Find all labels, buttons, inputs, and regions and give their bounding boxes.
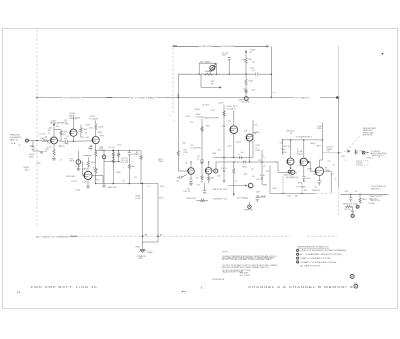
arrow pi bottom (233, 193, 235, 196)
junction osc rail left (199, 74, 200, 75)
neon lamp DS1 (210, 65, 215, 70)
svg-text:+60: +60 (241, 152, 245, 154)
svg-text:GRIDS: GRIDS (195, 109, 201, 111)
svg-text:6.3 VAC HTRS: 6.3 VAC HTRS (200, 45, 214, 48)
wire: V5A to bus (233, 133, 235, 157)
pilot lamp on B+ bus (244, 97, 248, 101)
wire: lamp loop top (198, 63, 200, 74)
wire: C2 to node A (68, 140, 74, 142)
svg-text:10M: 10M (205, 71, 209, 73)
svg-text:C: C (174, 121, 176, 123)
svg-text:C14: C14 (190, 121, 194, 123)
svg-text:R29: R29 (245, 198, 249, 200)
svg-text:(TREM OSC): (TREM OSC) (186, 198, 196, 200)
svg-text:2: 2 (167, 98, 169, 100)
svg-text:GRID: GRID (47, 142, 52, 144)
svg-text:1W: 1W (251, 169, 253, 171)
svg-text:C19: C19 (254, 125, 258, 127)
wire: pi bus lower (216, 161, 278, 163)
ground: chain1 ground (103, 184, 105, 185)
svg-text:C40: C40 (345, 191, 349, 193)
svg-text:3: 3 (297, 258, 298, 260)
wire: pot feed (77, 151, 79, 160)
wire: V6 grid from pi (275, 161, 278, 163)
svg-text:12AU7: 12AU7 (254, 131, 261, 134)
svg-text:7: 7 (357, 207, 359, 209)
svg-text:GND: GND (138, 258, 143, 260)
svg-text:R1: R1 (19, 145, 22, 147)
junction osc rail right (229, 74, 230, 75)
wire: bottom right rail (340, 193, 388, 195)
svg-text:PHASE INVERTER: PHASE INVERTER (204, 116, 219, 119)
svg-text:PRI: PRI (328, 161, 331, 163)
svg-text:SW1: SW1 (37, 163, 42, 165)
svg-text:TO: TO (148, 186, 151, 188)
resistor R17 (245, 78, 247, 86)
wire: R2 down to node (60, 136, 62, 141)
wire: V1 plate tap (54, 129, 61, 131)
resistor R28 (199, 199, 205, 201)
resistor R11 right chain (140, 151, 142, 155)
junction on B+ bus at divider (36, 97, 38, 99)
wire: pi vertical 3 (252, 120, 254, 158)
resistor R7 cathode (95, 151, 97, 157)
junction V7 plate node (308, 161, 310, 163)
legend item 4 (297, 261, 299, 263)
svg-text:(C12): (C12) (76, 166, 81, 168)
svg-text:BUS: BUS (161, 186, 165, 188)
svg-text:R36: R36 (288, 196, 292, 198)
svg-text:1600V: 1600V (362, 199, 368, 201)
svg-text:1M A: 1M A (69, 160, 74, 163)
svg-text:SEE NOTE 1: SEE NOTE 1 (371, 189, 382, 191)
svg-text:56K: 56K (248, 59, 252, 61)
node: registration dot (382, 53, 384, 55)
svg-text:TO PWR SW: TO PWR SW (64, 97, 80, 99)
capacitor C15 stub (179, 176, 181, 179)
svg-text:4: 4 (345, 160, 347, 162)
svg-text:117VAC: 117VAC (369, 202, 376, 205)
svg-text:220K: 220K (212, 153, 217, 155)
resistor R22 (207, 176, 209, 182)
wire: V7 plate riser (303, 140, 305, 158)
tube V2 triode (70, 129, 77, 136)
lamp ring right of V5D (214, 169, 218, 173)
svg-text:C28: C28 (280, 143, 284, 145)
wire: V3 cathode (95, 144, 97, 151)
wire: pot feed trem (248, 202, 250, 205)
svg-text:TO RECT: TO RECT (295, 97, 311, 99)
svg-text:10%: 10% (252, 90, 256, 92)
svg-text:NE-2 LAMP: NE-2 LAMP (200, 60, 211, 63)
junction V3 cathode node (95, 150, 96, 151)
svg-text:.005: .005 (89, 128, 94, 130)
wire: drop to chassis ground (142, 242, 144, 249)
wire: vertical from heater line to B+ bus (270, 46, 272, 97)
capacitor C5 (128, 151, 130, 153)
svg-text:TO B+: TO B+ (260, 175, 267, 177)
wire: V4 cathode (87, 180, 89, 186)
svg-text:.005: .005 (85, 137, 90, 139)
junction pi upper 1 (223, 157, 224, 158)
svg-text:12AX7: 12AX7 (82, 167, 89, 170)
wire: rail to tubes link (323, 152, 339, 154)
svg-text:(5%): (5%) (241, 60, 245, 62)
svg-text:GND: GND (136, 247, 141, 249)
svg-text:270K: 270K (184, 152, 189, 154)
svg-text:560K: 560K (242, 167, 247, 169)
resistor R16 (245, 57, 247, 65)
svg-text:+1.5: +1.5 (59, 159, 63, 161)
svg-text:CHAS: CHAS (147, 251, 154, 254)
svg-text:5: 5 (352, 216, 354, 218)
svg-text:PIN 1: PIN 1 (100, 135, 105, 137)
ground: V1 cathode ground (53, 156, 55, 158)
wire: V4 output to ladder (92, 174, 103, 176)
svg-text:47K: 47K (244, 131, 248, 133)
wire: V3 plate supply (95, 131, 97, 137)
svg-text:SEC: SEC (304, 190, 308, 192)
junction osc vertical at B+ bus (177, 97, 179, 99)
svg-text:10M: 10M (256, 191, 260, 193)
svg-text:3: 3 (123, 168, 125, 170)
wire: V5D plate up (208, 162, 210, 168)
svg-text:SEE NOTE 3 R27: SEE NOTE 3 R27 (213, 189, 229, 191)
capacitor C12 (302, 176, 305, 180)
svg-text:GND CONNECTION: GND CONNECTION (300, 258, 331, 260)
svg-text:1M: 1M (45, 136, 48, 138)
wire: driver vertical 1 (201, 119, 203, 160)
svg-text:OSC SYNC: OSC SYNC (241, 102, 250, 104)
wire: V8 plate drop (330, 171, 332, 193)
svg-text:PIN 6: PIN 6 (95, 179, 100, 181)
svg-text:50MF 6V: 50MF 6V (312, 190, 321, 192)
wire: V5D cathode (208, 174, 210, 176)
tube V5B triode (246, 134, 253, 141)
svg-text:SPKR: SPKR (298, 183, 303, 185)
ground: input jack ground (40, 152, 44, 154)
wire: heater supply line top (173, 45, 200, 47)
wire: pi bus upper (213, 157, 253, 159)
wire: V3 leg to bus (95, 174, 97, 184)
wire: ground bus tie bar (143, 241, 159, 243)
svg-text:4: 4 (297, 262, 298, 264)
wire: dashed vertical osc (172, 48, 174, 116)
wire: V3 cathode leg (95, 157, 97, 168)
svg-text:C11: C11 (134, 177, 138, 179)
wire: R16 to rail (245, 65, 247, 75)
svg-text:C2: C2 (66, 136, 69, 138)
wire: ladder bottom rail (96, 183, 158, 185)
wire: R26 to ground (352, 207, 354, 211)
wire: chain3 lower (128, 169, 130, 183)
resistor R8b (112, 158, 114, 163)
svg-text:B+ TO PWR TRANS: B+ TO PWR TRANS (131, 96, 156, 99)
reference circle 7 (356, 205, 359, 208)
svg-text:FWD AMP BATT. LINE JA: FWD AMP BATT. LINE JA (31, 285, 98, 289)
resistor R2 plate load (60, 130, 62, 136)
junction bottom rail 1 (282, 193, 283, 194)
svg-text:14: 14 (354, 283, 358, 285)
svg-text:C31: C31 (197, 184, 201, 186)
capacitor C9 series (244, 160, 246, 163)
svg-text:25/25: 25/25 (305, 178, 311, 180)
svg-text:V3 12AX7: V3 12AX7 (89, 118, 99, 121)
legend item 3 (297, 257, 299, 259)
svg-text:100K: 100K (98, 126, 104, 128)
svg-text:1: 1 (297, 250, 298, 252)
wire: V4 plate (87, 167, 89, 171)
svg-text:1A: 1A (185, 161, 187, 164)
svg-text:PIN 9: PIN 9 (316, 145, 321, 147)
svg-text:ALL GNDS TO CHASSIS: ALL GNDS TO CHASSIS (36, 235, 70, 238)
svg-text:40MF: 40MF (263, 185, 268, 187)
wire: osc main vertical (177, 74, 179, 150)
resistor R25 (359, 194, 361, 197)
svg-text:AT TUBE SOCKETS: AT TUBE SOCKETS (300, 265, 321, 268)
svg-text:220K: 220K (83, 129, 88, 131)
svg-text:16: 16 (333, 164, 335, 166)
capacitor C16 (256, 195, 258, 197)
junction of B+ bus and right rail (338, 97, 340, 99)
svg-text:+415: +415 (297, 165, 302, 167)
tube V1 triode (51, 137, 58, 144)
svg-text:500K: 500K (99, 149, 104, 151)
wire: tremolo connector lead (228, 185, 245, 187)
svg-text:56K: 56K (131, 166, 135, 168)
svg-text:.01: .01 (252, 70, 256, 72)
junction pi lower 1 (249, 161, 250, 162)
svg-text:R13: R13 (118, 144, 122, 146)
svg-text:GND: GND (29, 157, 34, 159)
junction blob B+ bus right end (336, 96, 339, 99)
resistor R10 (128, 155, 130, 164)
svg-text:1W: 1W (63, 134, 66, 136)
wire: ladder mid tap (104, 161, 120, 163)
tube V3 triode (92, 137, 99, 144)
svg-text:250K: 250K (158, 161, 163, 163)
wire: V5C plate up (190, 162, 192, 168)
potentiometer speed (248, 205, 251, 208)
wire: R1 to V1 grid (47, 140, 50, 142)
resistor R4 (80, 127, 82, 134)
wire: output bottom rail (270, 192, 316, 194)
svg-text:V5 12AU7: V5 12AU7 (226, 107, 236, 110)
resistor R16b on osc vertical (177, 150, 179, 156)
wire: V5D out (212, 170, 214, 172)
resistor R23b (201, 175, 203, 181)
svg-text:(C30): (C30) (75, 190, 80, 192)
svg-text:2W: 2W (290, 133, 292, 135)
ground: main chassis ground (140, 249, 145, 251)
wire: pot wiper to V4 grid (82, 162, 84, 175)
svg-text:(R8): (R8) (98, 132, 103, 134)
svg-text:47K: 47K (81, 137, 85, 139)
wire: chain1 lower (103, 159, 105, 184)
wire: ladder top rail (96, 150, 141, 152)
svg-text:C15: C15 (176, 180, 180, 182)
svg-text:33K: 33K (30, 146, 34, 148)
capacitor C7 osc right (255, 73, 257, 76)
junction osc rail mid (216, 74, 217, 75)
svg-text:220K: 220K (255, 150, 260, 152)
wire: R20 to arrow (233, 175, 235, 194)
tube V4 triode (84, 171, 92, 179)
resistor R18b (201, 126, 203, 132)
svg-text:82K 1%: 82K 1% (221, 168, 227, 170)
svg-text:LINE VOLTAGES(S) 117VAC NOMINA: LINE VOLTAGES(S) 117VAC NOMINAL (300, 249, 347, 252)
resistor R1 grid stopper (41, 139, 49, 141)
svg-text:8: 8 (335, 178, 337, 180)
wire: R17 to B+ bus (245, 86, 247, 89)
svg-text:B+: B+ (250, 52, 253, 54)
resistor R6 plate (95, 123, 97, 130)
jack J1 (26, 139, 29, 142)
wire: V5B to bus (249, 141, 251, 162)
svg-text:BEFORE OPERATING 8 OHM NOMINA: BEFORE OPERATING 8 OHM NOMINAL SEE PG 2 (222, 266, 270, 269)
svg-text:W: W (123, 180, 125, 182)
svg-text:.01: .01 (355, 191, 358, 193)
ground: interlock ground (351, 211, 355, 213)
wire: ground return bus 2 (157, 184, 159, 243)
lamp DS2 tremolo (248, 183, 253, 188)
wire: screen rail left drop (282, 140, 284, 155)
wire: chain1 lead (103, 151, 105, 156)
svg-text:C1 .001: C1 .001 (39, 134, 47, 136)
svg-text:+265V: +265V (218, 103, 225, 105)
svg-text:TO GRIDS: TO GRIDS (195, 116, 204, 118)
wire: V6 plate riser (290, 140, 292, 158)
svg-text:R31 1K: R31 1K (283, 146, 291, 148)
tube V8 power (315, 167, 324, 176)
tube V5C triode (188, 168, 195, 175)
svg-text:LOCK: LOCK (357, 164, 362, 166)
interlock dashed box (357, 161, 369, 166)
svg-text:OUT TRANS: OUT TRANS (296, 186, 306, 189)
junction br 2 (359, 194, 360, 195)
resistor R12 plate (87, 160, 89, 168)
junction input wire at divider (36, 140, 38, 142)
svg-text:1K: 1K (196, 177, 199, 179)
svg-text:820: 820 (88, 148, 93, 150)
svg-text:2: 2 (297, 254, 298, 256)
junction ground bus 2 at chassis rail (157, 235, 159, 237)
wire: V7 to V8 link (308, 161, 311, 163)
svg-text:NO 7-2042: NO 7-2042 (240, 275, 251, 277)
svg-text:2W: 2W (252, 62, 254, 64)
wire: B+ feed corner vertical (269, 166, 271, 194)
wire: ground return bus 1 (142, 184, 144, 243)
legend item 2 (297, 253, 299, 255)
wire: osc vert to V5C grid (178, 170, 187, 172)
svg-text:(C2): (C2) (61, 146, 65, 148)
svg-text:B+ / CHANNEL SELECTOR SW: B+ / CHANNEL SELECTOR SW (300, 253, 341, 256)
svg-text:CHANNEL A & CHANNEL B MEMORI: CHANNEL A & CHANNEL B MEMORI S (248, 285, 354, 289)
svg-text:V5C: V5C (187, 188, 191, 190)
junction ground bus 1 at chassis rail (142, 235, 144, 237)
potentiometer VOL (76, 160, 81, 165)
tube V7 power (300, 158, 308, 166)
svg-text:4A: 4A (17, 291, 21, 294)
svg-text:1500: 1500 (228, 146, 233, 148)
wire: V8 cathode (318, 176, 320, 181)
svg-text:INTERLOCK 220K: INTERLOCK 220K (343, 203, 358, 205)
capacitor C2 coupling (65, 140, 67, 143)
svg-text:1M: 1M (211, 84, 214, 86)
capacitor C14 (350, 194, 352, 197)
ground: V4 cathode ground (86, 186, 90, 188)
svg-text:R4: R4 (48, 130, 51, 132)
svg-text:BRT: BRT (25, 170, 29, 172)
capacitor C11 (189, 178, 192, 182)
wire: input lead (32, 140, 42, 142)
svg-text:2.2M: 2.2M (75, 117, 80, 119)
svg-text:10K: 10K (295, 196, 299, 198)
svg-text:100K: 100K (248, 80, 253, 82)
resistor R8 dense chain (112, 152, 114, 158)
svg-text:R10 500K: R10 500K (66, 176, 76, 178)
wire: V2 cathode stub (73, 136, 75, 141)
svg-text:NOTE:: NOTE: (222, 252, 228, 254)
svg-text:+275: +275 (211, 110, 216, 112)
capacitor C13 (318, 180, 321, 184)
junction node A (73, 140, 75, 142)
wire: vert2 lower (223, 158, 225, 184)
svg-text:+: + (42, 96, 44, 98)
svg-text:TO CH B: TO CH B (202, 105, 210, 107)
svg-text:.1: .1 (238, 154, 241, 156)
junction osc rail far right (245, 74, 246, 75)
wire: osc lower loop (200, 74, 202, 87)
wire: screen to V8 (322, 140, 324, 160)
ground: V5C ground (189, 184, 193, 186)
junction pi upper 2 (233, 157, 234, 158)
svg-text:GRID 2: GRID 2 (281, 149, 287, 151)
wire: pi lower to pot (277, 162, 279, 172)
svg-text:J1 A: J1 A (11, 142, 17, 145)
wire: small bottom dash (184, 290, 187, 292)
svg-text:BLU: BLU (342, 156, 346, 158)
capacitor C3 bypass (89, 145, 92, 149)
reference circle 8 (350, 274, 354, 278)
svg-text:SEE NOTE 2: SEE NOTE 2 (372, 155, 386, 157)
svg-text:FORM 2042-A: FORM 2042-A (212, 278, 225, 281)
wire: V7 cathode chain (303, 166, 305, 177)
resistor R18 on vert2 (223, 110, 225, 117)
supply arrow B+ top (245, 50, 247, 53)
junction screen rail right (322, 139, 323, 140)
svg-text:(C14) 470K: (C14) 470K (191, 147, 202, 149)
resistor R26 (345, 205, 353, 207)
node: center bottom dot (201, 287, 202, 288)
svg-text:T2: T2 (332, 174, 335, 176)
svg-text:RK: RK (45, 151, 49, 153)
svg-text:HUM BAL 100: HUM BAL 100 (286, 176, 299, 179)
svg-text:FT SW: FT SW (135, 198, 140, 200)
wire: pi vertical 4 (261, 150, 263, 185)
capacitor C10 drop (203, 190, 206, 194)
capacitor C8 series (240, 156, 242, 159)
connector socket J5 (362, 151, 365, 154)
svg-text:(C13)+: (C13)+ (72, 181, 78, 183)
tube V5A triode (230, 126, 238, 134)
svg-text:2: 2 (289, 172, 291, 174)
svg-text:PIN 2: PIN 2 (236, 142, 241, 144)
svg-text:.01: .01 (197, 158, 200, 160)
svg-text:SCRN: SCRN (317, 128, 322, 130)
svg-text:JACK J1: JACK J1 (10, 139, 19, 142)
potentiometer treble (102, 155, 106, 159)
